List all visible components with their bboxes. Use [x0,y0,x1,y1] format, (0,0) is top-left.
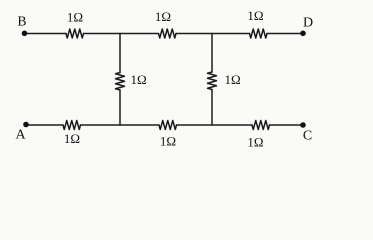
svg-text:1Ω: 1Ω [67,10,83,25]
svg-text:1Ω: 1Ω [247,134,263,149]
wire top rail R3 to D [267,33,303,35]
svg-text:1Ω: 1Ω [225,72,241,87]
wire vertical lower right branch [211,90,213,126]
svg-text:1Ω: 1Ω [131,72,147,87]
wire vertical upper left branch [119,34,121,73]
resistor R8 1ohm vertical-right [208,72,217,90]
wire vertical lower left branch [119,90,121,125]
node B terminal dot [22,31,28,37]
svg-text:1Ω: 1Ω [247,8,263,23]
resistor R2 1ohm top-middle [159,29,177,38]
node C terminal dot [300,122,306,128]
svg-text:1Ω: 1Ω [64,131,80,146]
resistor R4 1ohm bottom-left [63,121,81,130]
wire bottom rail R5 to R6 [177,124,253,126]
wire bottom rail R4 to R5 [81,124,160,126]
resistor R5 1ohm bottom-middle [159,121,177,130]
svg-text:A: A [15,128,26,143]
resistor R1 1ohm top-left [66,29,84,38]
resistor R6 1ohm bottom-right [252,121,270,130]
node A terminal dot [23,122,29,128]
wire bottom rail R6 to C [270,124,304,126]
svg-text:D: D [303,16,313,31]
node D terminal dot [300,31,306,37]
wire vertical upper right branch [211,34,213,73]
svg-text:B: B [17,14,26,29]
svg-text:1Ω: 1Ω [160,133,176,148]
svg-text:1Ω: 1Ω [155,9,171,24]
wire top rail R1 to R2 [84,33,159,35]
resistor R7 1ohm vertical-left [116,73,125,91]
svg-text:C: C [303,129,312,144]
wire top rail B to R1 [25,33,67,35]
wire top rail R2 to R3 [176,33,250,35]
resistor R3 1ohm top-right [250,29,268,38]
wire bottom rail A to R4 [26,124,63,126]
